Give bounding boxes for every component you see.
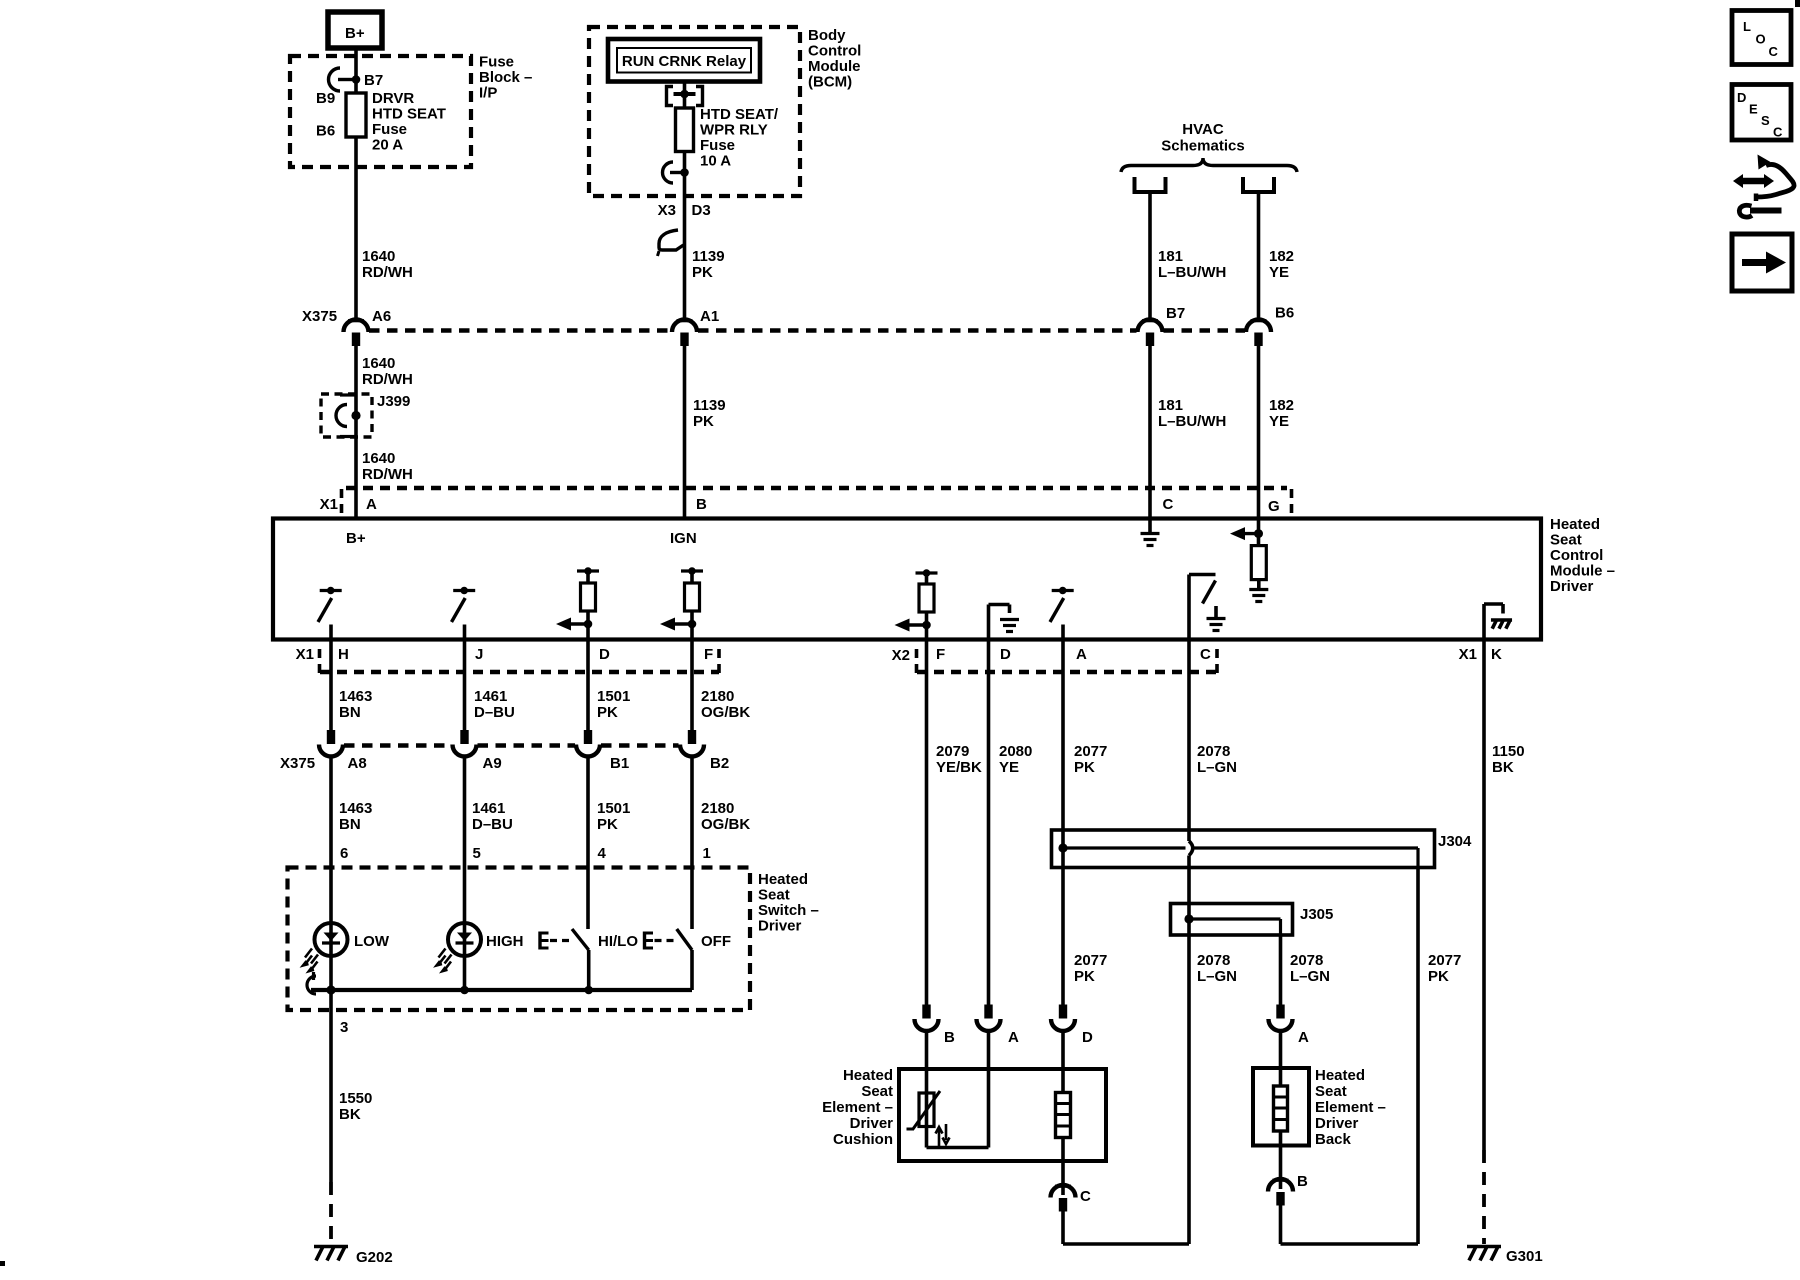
svg-text:X375: X375 (280, 755, 315, 772)
svg-text:B6: B6 (316, 123, 335, 140)
inline connector A1 (677, 319, 693, 322)
svg-text:A8: A8 (348, 755, 367, 772)
svg-text:Fuse: Fuse (479, 54, 514, 71)
svg-text:A6: A6 (372, 308, 391, 325)
nav icon LOC (1732, 11, 1791, 65)
svg-text:5: 5 (473, 845, 481, 862)
inline connector C cushion (1055, 1185, 1071, 1188)
svg-text:A9: A9 (483, 755, 502, 772)
wire B back to return (1279, 1204, 1283, 1244)
svg-text:D–BU: D–BU (474, 704, 515, 721)
module output switch J (453, 589, 475, 592)
wire C to return (1061, 1210, 1065, 1244)
svg-text:Heated: Heated (1315, 1067, 1365, 1084)
svg-text:Block –: Block – (479, 69, 532, 86)
heated seat element cushion box (899, 1069, 1106, 1161)
wire 1501 PK lower (586, 757, 590, 930)
ground G301 (1467, 1245, 1501, 1249)
wire 1550 BK dashed (329, 1182, 333, 1244)
svg-text:K: K (1491, 646, 1502, 663)
svg-text:4: 4 (598, 845, 607, 862)
svg-text:A: A (366, 496, 377, 513)
svg-text:A1: A1 (700, 308, 719, 325)
svg-text:L–GN: L–GN (1197, 759, 1237, 776)
module sense F (681, 569, 703, 572)
svg-text:RUN CRNK Relay: RUN CRNK Relay (622, 53, 747, 70)
terminal clip X3 (663, 162, 674, 183)
wire B into cushion box (925, 1031, 929, 1093)
svg-text:3: 3 (340, 1019, 348, 1036)
indicator lamp LOW (315, 923, 348, 956)
svg-text:Seat: Seat (861, 1083, 893, 1100)
svg-text:LOW: LOW (354, 933, 390, 950)
wire element to C connector (1061, 1138, 1065, 1196)
wire 2078 L-GN (1187, 640, 1191, 831)
svg-text:1640: 1640 (362, 248, 395, 265)
switch common bus (311, 988, 692, 992)
svg-text:2077: 2077 (1074, 743, 1107, 760)
wire 2078 J304 to J305 (1187, 868, 1191, 904)
fuse block I/P dashed box (290, 56, 471, 167)
svg-text:2078: 2078 (1290, 952, 1323, 969)
svg-text:PK: PK (597, 816, 618, 833)
svg-text:B2: B2 (710, 755, 729, 772)
svg-text:OG/BK: OG/BK (701, 816, 750, 833)
svg-text:Element –: Element – (822, 1099, 893, 1116)
wire 1150 BK dashed (1482, 1150, 1486, 1244)
terminal clip D3 (659, 230, 684, 250)
svg-text:DRVR: DRVR (372, 90, 414, 107)
bus clip (307, 976, 316, 994)
svg-text:1139: 1139 (692, 248, 725, 265)
svg-text:B7: B7 (364, 72, 383, 89)
svg-text:Heated: Heated (1550, 516, 1600, 533)
splice J305 internal wire (1189, 917, 1281, 920)
module sense X2F (916, 571, 938, 574)
wire 2078 hop in J304 (1187, 830, 1191, 841)
svg-text:2079: 2079 (936, 743, 969, 760)
splice J304 internal wire (1063, 846, 1186, 849)
switch HI/LO dashes (550, 939, 571, 942)
junction dot J399 (351, 411, 360, 420)
svg-text:HI/LO: HI/LO (598, 933, 638, 950)
splice pack J304 box (1052, 830, 1435, 868)
svg-text:1463: 1463 (339, 800, 372, 817)
module internal ground X2D (987, 605, 991, 640)
wire A into cushion box (987, 1031, 991, 1148)
svg-text:Seat: Seat (1550, 532, 1582, 549)
svg-text:Control: Control (1550, 547, 1603, 564)
svg-text:YE: YE (1269, 413, 1289, 430)
svg-text:Fuse: Fuse (372, 121, 407, 138)
wire relay to fuse (683, 82, 687, 109)
svg-text:2180: 2180 (701, 800, 734, 817)
svg-text:I/P: I/P (479, 85, 497, 102)
svg-text:BK: BK (339, 1106, 361, 1123)
svg-text:182: 182 (1269, 248, 1294, 265)
wire 2079 YE/BK (925, 640, 929, 1007)
heated seat control module box (273, 519, 1541, 640)
inline connector B6 (1251, 319, 1267, 322)
wire fuse to X3 (683, 152, 687, 319)
svg-text:YE/BK: YE/BK (936, 759, 982, 776)
svg-text:OG/BK: OG/BK (701, 704, 750, 721)
wire 182 upper (1257, 192, 1261, 319)
wire B+ to fuse block (354, 48, 358, 93)
svg-text:Module –: Module – (1550, 563, 1615, 580)
svg-text:PK: PK (1074, 759, 1095, 776)
wire thermistor return (925, 1127, 929, 1148)
svg-text:IGN: IGN (670, 530, 697, 547)
nav icon routing (1741, 178, 1767, 185)
svg-text:X2: X2 (892, 647, 910, 664)
fuse DRVR HTD SEAT 20A (346, 93, 366, 137)
svg-text:BN: BN (339, 816, 361, 833)
module connector X1 dashed line (346, 486, 1287, 491)
svg-text:A: A (1298, 1029, 1309, 1046)
svg-text:X1: X1 (320, 496, 338, 513)
svg-text:20 A: 20 A (372, 137, 403, 154)
wire 1139 PK middle (683, 346, 687, 519)
splice J399 dashed box (321, 394, 372, 437)
svg-text:C: C (1773, 125, 1783, 140)
svg-text:1501: 1501 (597, 688, 630, 705)
svg-text:YE: YE (1269, 264, 1289, 281)
svg-text:HVAC: HVAC (1182, 121, 1224, 138)
X2 tick left (915, 649, 919, 676)
wire 1640 RD/WH middle (354, 346, 358, 519)
wire lamp HIGH to bus (463, 956, 467, 990)
svg-text:1501: 1501 (597, 800, 630, 817)
relay contact symbol (667, 87, 674, 106)
thermistor (919, 1093, 934, 1127)
module output switch H (320, 589, 342, 592)
svg-text:J: J (475, 646, 483, 663)
terminal clip B7 (329, 68, 341, 91)
switch OFF (643, 932, 646, 950)
svg-text:Seat: Seat (1315, 1083, 1347, 1100)
svg-text:1139: 1139 (693, 397, 726, 414)
svg-text:Heated: Heated (758, 871, 808, 888)
inline connector A9 (460, 730, 468, 744)
svg-text:PK: PK (597, 704, 618, 721)
splice J399 symbol (340, 393, 356, 396)
svg-text:E: E (1749, 102, 1758, 117)
wire 2180 OG/BK lower (690, 757, 694, 930)
svg-text:C: C (1163, 496, 1174, 513)
svg-text:Schematics: Schematics (1161, 138, 1244, 155)
svg-text:(BCM): (BCM) (808, 74, 852, 91)
svg-text:RD/WH: RD/WH (362, 264, 413, 281)
svg-text:1640: 1640 (362, 450, 395, 467)
svg-text:PK: PK (692, 264, 713, 281)
svg-text:B1: B1 (610, 755, 629, 772)
svg-text:D: D (599, 646, 610, 663)
module internal ground at C (1148, 519, 1152, 534)
inline connector A cushion (984, 1005, 992, 1019)
svg-text:Element –: Element – (1315, 1099, 1386, 1116)
heater element cushion (1056, 1093, 1071, 1138)
fuse HTD SEAT/WPR RLY 10A (676, 108, 694, 152)
svg-text:L–GN: L–GN (1290, 968, 1330, 985)
inline connector A back (1276, 1005, 1284, 1019)
wire 2078 branch to back element (1279, 935, 1283, 1006)
X2 tick right (1215, 649, 1219, 676)
wire 1463 BN upper (329, 640, 333, 732)
thermistor arrows (936, 1127, 943, 1146)
junction dot B7 (352, 75, 361, 84)
X1 lower tick right (717, 649, 721, 676)
svg-text:Driver: Driver (758, 918, 802, 935)
module wire G to resistor (1257, 519, 1261, 546)
junction dot bus HIGH (460, 986, 469, 995)
svg-text:HIGH: HIGH (486, 933, 524, 950)
svg-text:Driver: Driver (850, 1115, 894, 1132)
svg-text:C: C (1080, 1188, 1091, 1205)
splice pack J305 box (1171, 904, 1293, 936)
module sense D (577, 569, 599, 572)
svg-text:X3: X3 (658, 202, 676, 219)
svg-text:2077: 2077 (1428, 952, 1461, 969)
wire element back to B (1279, 1131, 1283, 1189)
connector row X375 dashed line (369, 328, 671, 333)
svg-text:B+: B+ (346, 530, 366, 547)
battery feed B+ box (328, 12, 382, 48)
svg-text:WPR RLY: WPR RLY (700, 122, 768, 139)
inline connector B1 (584, 730, 592, 744)
wire 2077 J304 to element (1061, 868, 1065, 1007)
wire 2077 PK (1061, 640, 1065, 831)
svg-text:HTD SEAT/: HTD SEAT/ (700, 106, 779, 123)
svg-text:2078: 2078 (1197, 952, 1230, 969)
wire 181 upper (1148, 192, 1152, 319)
svg-text:B6: B6 (1275, 305, 1294, 322)
nav icon arrow (1732, 234, 1792, 291)
svg-text:RD/WH: RD/WH (362, 466, 413, 483)
svg-text:Cushion: Cushion (833, 1131, 893, 1148)
svg-text:2180: 2180 (701, 688, 734, 705)
wire 2180 OG/BK upper (690, 640, 694, 732)
X1 lower tick left (318, 649, 322, 676)
svg-text:D: D (1000, 646, 1011, 663)
svg-text:1640: 1640 (362, 355, 395, 372)
svg-text:2078: 2078 (1197, 743, 1230, 760)
inline connector B7 (1142, 319, 1158, 322)
heated seat switch dashed box (288, 868, 751, 1011)
module internal arrow at G (1240, 532, 1259, 535)
svg-text:C: C (1769, 44, 1779, 59)
HVAC terminal right (1243, 177, 1274, 192)
switch OFF dashes (655, 939, 676, 942)
svg-text:L: L (1743, 19, 1751, 34)
brace (1121, 158, 1297, 172)
svg-text:S: S (1761, 113, 1770, 128)
svg-text:Seat: Seat (758, 887, 790, 904)
wire 2077 J304 right branch (1416, 868, 1420, 1245)
module connector X1 lower dashed (320, 670, 719, 675)
wire D into cushion box (1061, 1031, 1065, 1093)
svg-text:PK: PK (693, 413, 714, 430)
heated seat element back box (1253, 1068, 1309, 1146)
wire 1501 PK upper (586, 640, 590, 732)
svg-text:2080: 2080 (999, 743, 1032, 760)
svg-text:X1: X1 (1459, 646, 1477, 663)
svg-text:YE: YE (999, 759, 1019, 776)
svg-text:B: B (944, 1029, 955, 1046)
wire 2077 through J304 (1061, 830, 1065, 868)
svg-text:B+: B+ (345, 25, 365, 42)
svg-text:182: 182 (1269, 397, 1294, 414)
wire A into back box (1279, 1031, 1283, 1086)
junction dot J305 (1184, 914, 1193, 923)
svg-text:D–BU: D–BU (472, 816, 513, 833)
wire lamp LOW to bus (329, 956, 333, 990)
junction dot J304 (1058, 843, 1067, 852)
svg-text:B: B (696, 496, 707, 513)
svg-text:D3: D3 (692, 202, 711, 219)
wire 2078 J305 to return (1187, 935, 1191, 1244)
module chassis ground K (1482, 604, 1486, 640)
wire 182 middle (1257, 346, 1261, 519)
svg-text:J399: J399 (377, 393, 410, 410)
svg-text:D: D (1737, 90, 1746, 105)
svg-text:X375: X375 (302, 308, 337, 325)
switch HI/LO (538, 932, 541, 950)
wire 1463 BN lower (329, 757, 333, 924)
RUN CRNK relay box (608, 39, 760, 82)
svg-text:Back: Back (1315, 1131, 1352, 1148)
svg-text:A: A (1076, 646, 1087, 663)
svg-text:1: 1 (703, 845, 711, 862)
module internal resistor ground (1257, 580, 1261, 589)
X1 tick left (340, 489, 344, 514)
svg-text:F: F (704, 646, 713, 663)
svg-text:2077: 2077 (1074, 952, 1107, 969)
module switch to ground X2C (1187, 575, 1191, 640)
module internal resistor G (1251, 546, 1266, 580)
indicator lamp HIGH (448, 923, 481, 956)
body control module dashed box (589, 27, 800, 196)
svg-text:B7: B7 (1166, 305, 1185, 322)
inline connector B cushion (922, 1005, 930, 1019)
wire 181 middle (1148, 346, 1152, 519)
svg-text:B9: B9 (316, 90, 335, 107)
svg-text:J304: J304 (1438, 833, 1472, 850)
svg-text:Module: Module (808, 58, 861, 75)
wire 1150 BK (1482, 640, 1486, 1151)
svg-text:Driver: Driver (1550, 578, 1594, 595)
svg-text:F: F (936, 646, 945, 663)
svg-text:A: A (1008, 1029, 1019, 1046)
svg-text:C: C (1200, 646, 1211, 663)
svg-text:L–BU/WH: L–BU/WH (1158, 264, 1226, 281)
svg-text:X1: X1 (296, 646, 314, 663)
wire 1461 D-BU upper (463, 640, 467, 732)
wire 2078 through J305 (1187, 904, 1191, 936)
svg-text:H: H (338, 646, 349, 663)
svg-text:D: D (1082, 1029, 1093, 1046)
svg-text:10 A: 10 A (700, 153, 731, 170)
wire 1640 RD/WH upper (354, 137, 358, 319)
nav icon DESC (1732, 85, 1791, 141)
inline connector A8 (327, 730, 335, 744)
svg-text:Driver: Driver (1315, 1115, 1359, 1132)
svg-text:1461: 1461 (472, 800, 505, 817)
inline connector D cushion (1059, 1005, 1067, 1019)
svg-text:Heated: Heated (843, 1067, 893, 1084)
connector row X375-2 dashed line (344, 743, 452, 748)
svg-text:BN: BN (339, 704, 361, 721)
junction dot bus LOW (326, 985, 335, 994)
inline connector B back (1273, 1179, 1289, 1182)
svg-text:1461: 1461 (474, 688, 507, 705)
junction dot bus HI/LO (584, 986, 593, 995)
heater element back (1274, 1086, 1288, 1131)
svg-text:HTD SEAT: HTD SEAT (372, 106, 446, 123)
svg-text:J305: J305 (1300, 906, 1333, 923)
wire 2080 YE (987, 640, 991, 1007)
svg-text:1463: 1463 (339, 688, 372, 705)
junction dot X3 (680, 168, 689, 177)
corner mark (0, 1261, 5, 1266)
svg-text:Switch –: Switch – (758, 902, 819, 919)
svg-text:6: 6 (340, 845, 348, 862)
svg-text:181: 181 (1158, 248, 1183, 265)
svg-text:RD/WH: RD/WH (362, 371, 413, 388)
svg-text:Fuse: Fuse (700, 137, 735, 154)
svg-text:Control: Control (808, 43, 861, 60)
HVAC terminal left (1135, 177, 1166, 192)
svg-text:G202: G202 (356, 1249, 393, 1266)
svg-text:L–GN: L–GN (1197, 968, 1237, 985)
svg-text:BK: BK (1492, 759, 1514, 776)
svg-text:O: O (1756, 32, 1766, 47)
ground G202 (314, 1245, 348, 1249)
inline connector B2 (688, 730, 696, 744)
svg-text:PK: PK (1074, 968, 1095, 985)
svg-text:L–BU/WH: L–BU/WH (1158, 413, 1226, 430)
module output switch A (1052, 589, 1074, 592)
inline connector A6 (348, 319, 364, 322)
svg-text:Body: Body (808, 27, 846, 44)
svg-text:PK: PK (1428, 968, 1449, 985)
svg-text:B: B (1297, 1173, 1308, 1190)
module connector X2 dashed (917, 670, 1217, 675)
svg-text:1150: 1150 (1492, 743, 1525, 760)
svg-text:181: 181 (1158, 397, 1183, 414)
svg-text:G: G (1268, 498, 1280, 515)
svg-text:G301: G301 (1506, 1248, 1543, 1265)
wire 1461 D-BU lower (463, 757, 467, 924)
wire 1550 BK (329, 990, 333, 1182)
X1 tick right (1290, 489, 1294, 514)
svg-text:OFF: OFF (701, 933, 731, 950)
svg-text:1550: 1550 (339, 1090, 372, 1107)
